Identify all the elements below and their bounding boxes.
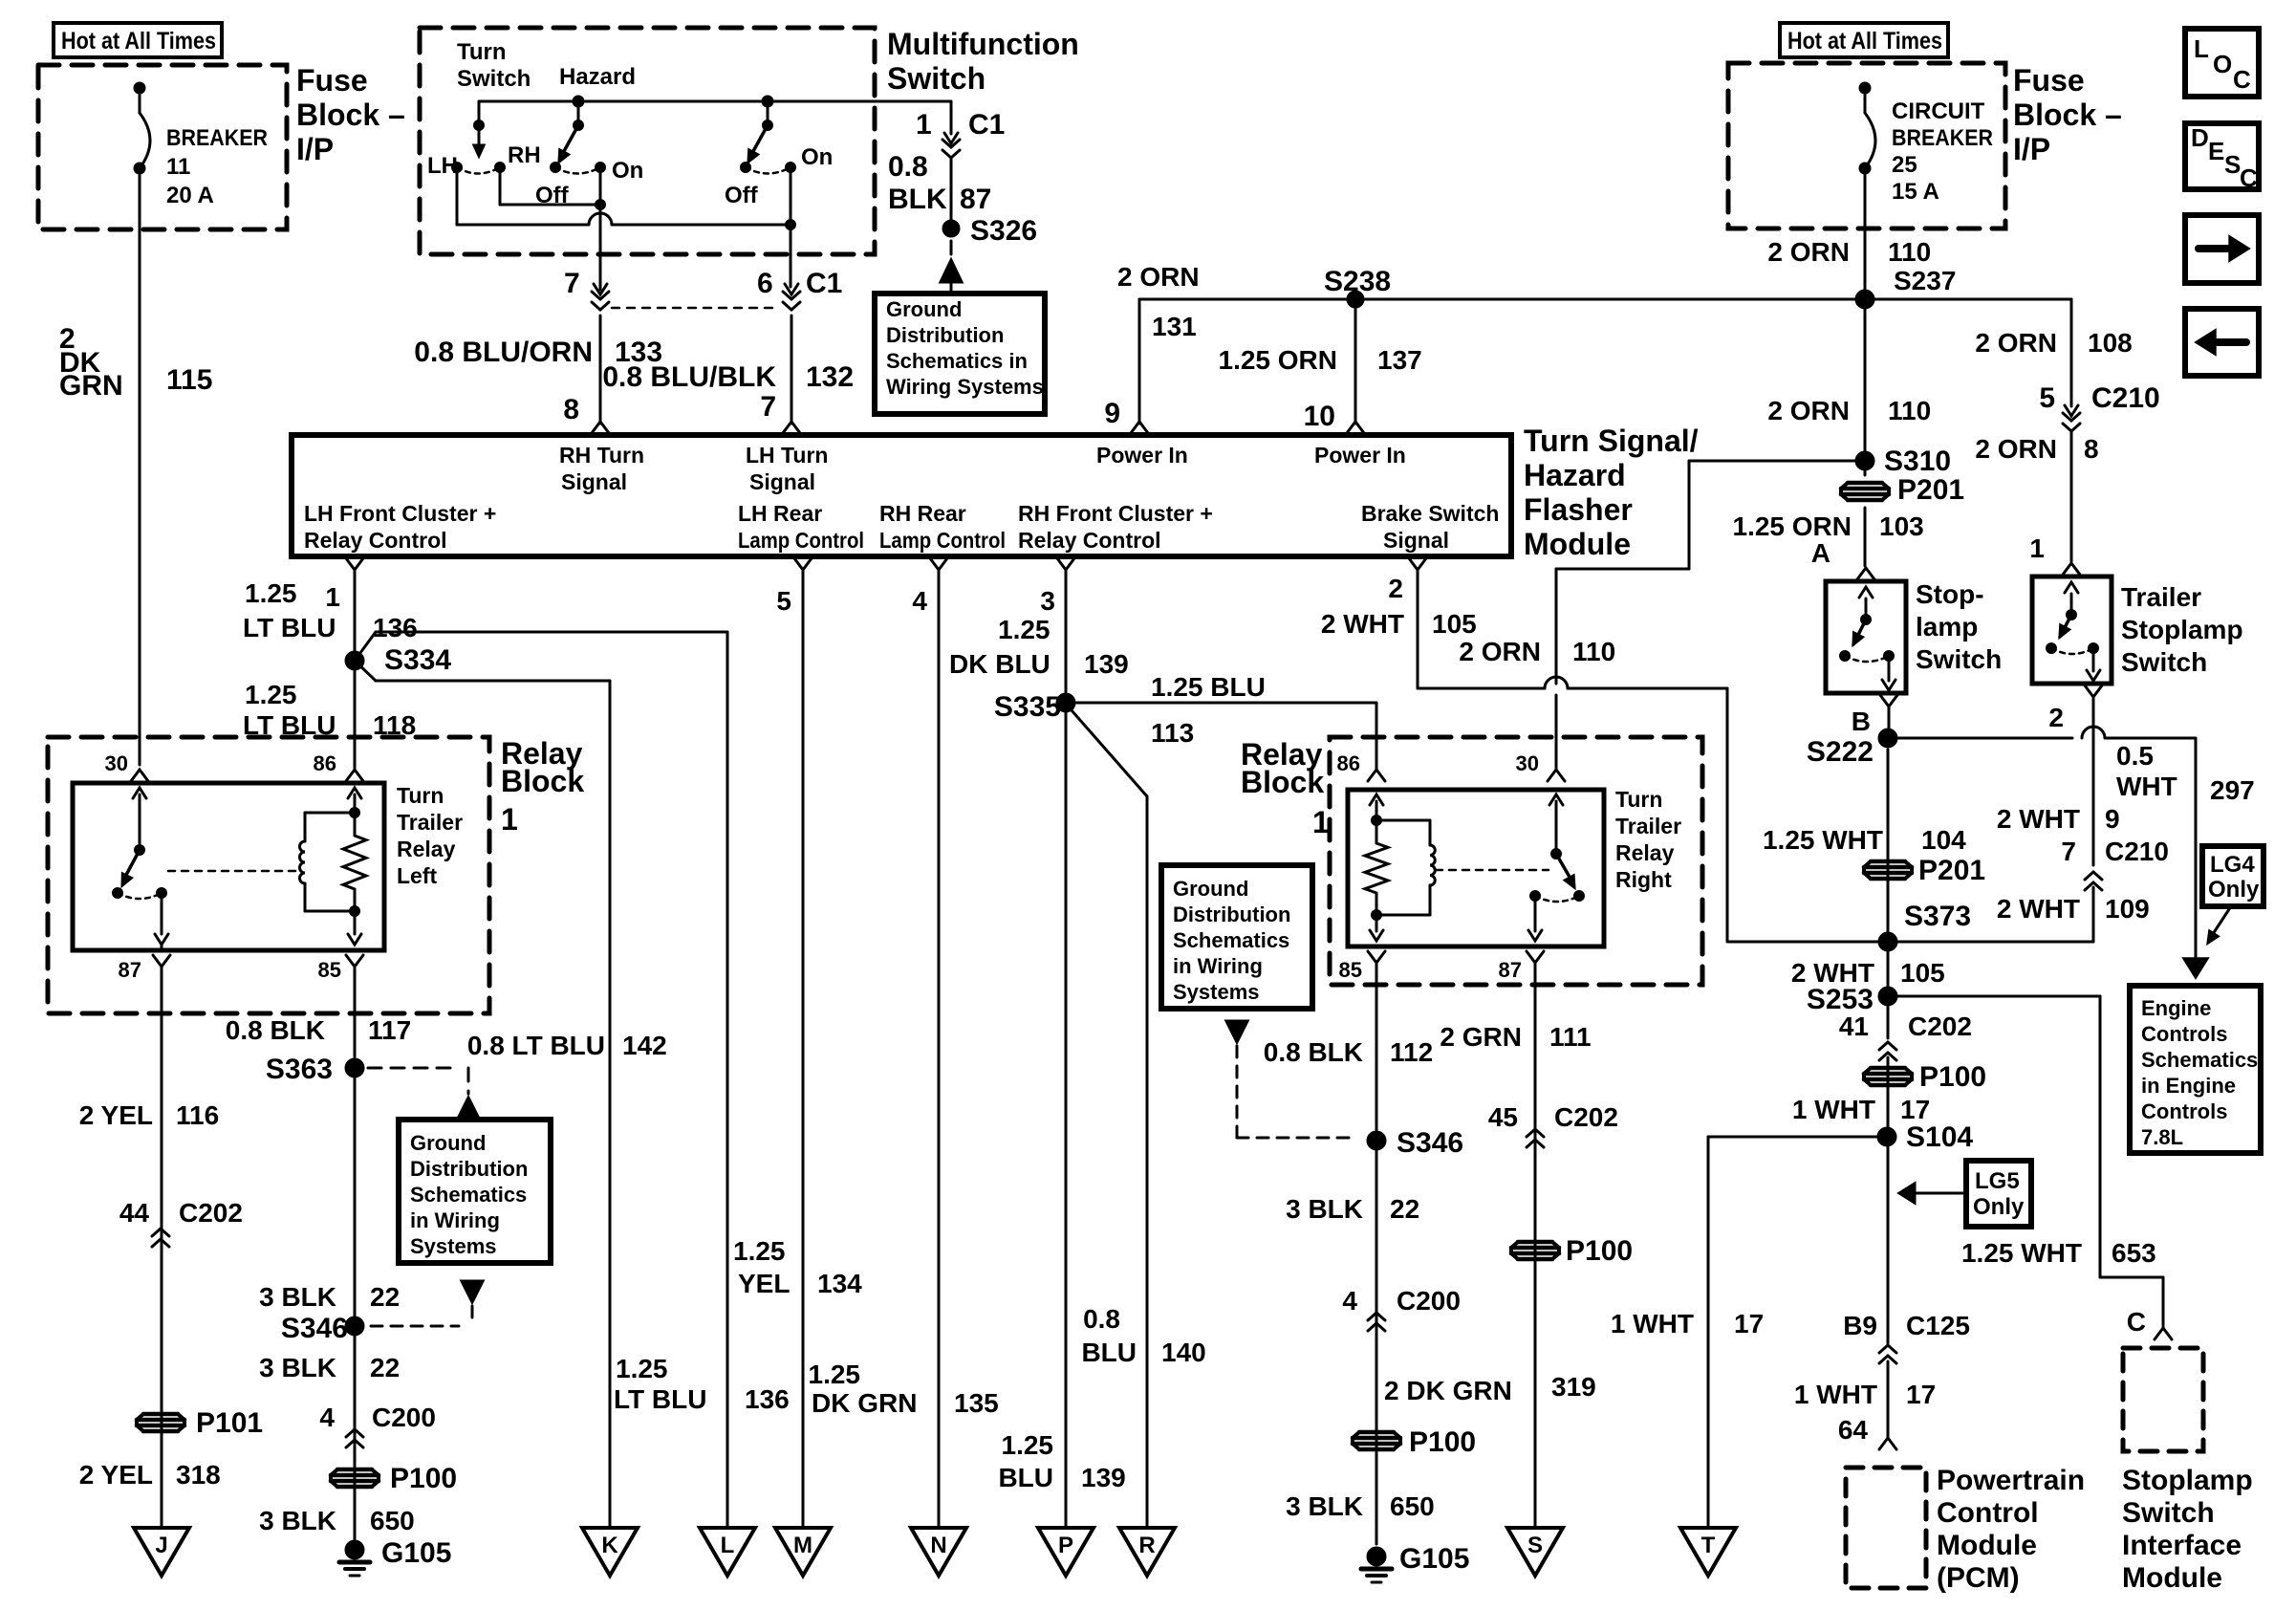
svg-text:2 YEL: 2 YEL <box>79 1100 153 1130</box>
svg-text:I/P: I/P <box>296 132 334 166</box>
svg-text:7.8L: 7.8L <box>2141 1125 2183 1149</box>
svg-text:RH Front Cluster +: RH Front Cluster + <box>1018 501 1213 526</box>
svg-text:Ground: Ground <box>886 297 962 321</box>
svg-text:Powertrain: Powertrain <box>1937 1465 2085 1496</box>
svg-text:139: 139 <box>1081 1463 1126 1492</box>
svg-text:4: 4 <box>912 586 927 616</box>
svg-text:Block –: Block – <box>296 98 405 132</box>
svg-text:C210: C210 <box>2105 837 2169 866</box>
svg-text:Signal: Signal <box>749 469 815 494</box>
svg-text:Lamp Control: Lamp Control <box>738 528 864 553</box>
svg-text:Right: Right <box>1615 867 1672 892</box>
svg-text:1.25: 1.25 <box>616 1354 668 1383</box>
svg-text:7: 7 <box>564 268 580 299</box>
svg-text:0.8 BLK: 0.8 BLK <box>226 1015 325 1045</box>
svg-text:650: 650 <box>370 1506 415 1535</box>
svg-text:135: 135 <box>954 1388 999 1418</box>
svg-text:0.8 BLU/BLK: 0.8 BLU/BLK <box>602 361 776 393</box>
svg-text:I/P: I/P <box>2013 132 2050 166</box>
svg-text:WHT: WHT <box>2116 772 2177 801</box>
svg-text:Ground: Ground <box>410 1131 486 1155</box>
svg-text:GRN: GRN <box>59 370 123 402</box>
svg-text:Fuse: Fuse <box>2013 63 2085 98</box>
svg-text:BLK: BLK <box>888 184 947 215</box>
svg-text:S346: S346 <box>1397 1127 1463 1159</box>
svg-text:87: 87 <box>960 184 991 215</box>
svg-text:Turn: Turn <box>1615 787 1662 812</box>
svg-text:1.25 ORN: 1.25 ORN <box>1219 345 1338 375</box>
svg-text:653: 653 <box>2112 1238 2156 1268</box>
svg-text:1 WHT: 1 WHT <box>1792 1095 1875 1124</box>
svg-text:87: 87 <box>1499 958 1522 982</box>
svg-text:P100: P100 <box>1919 1061 1986 1093</box>
svg-text:Interface: Interface <box>2122 1530 2242 1561</box>
svg-text:2 DK GRN: 2 DK GRN <box>1384 1376 1512 1405</box>
svg-text:C202: C202 <box>179 1198 243 1228</box>
svg-text:111: 111 <box>1549 1022 1592 1052</box>
svg-text:Flasher: Flasher <box>1524 492 1633 527</box>
svg-text:116: 116 <box>176 1100 219 1130</box>
svg-text:7: 7 <box>760 391 776 423</box>
svg-text:S222: S222 <box>1807 736 1874 768</box>
svg-text:30: 30 <box>105 751 128 775</box>
svg-text:136: 136 <box>373 613 418 642</box>
svg-text:105: 105 <box>1900 958 1945 988</box>
svg-text:110: 110 <box>1572 637 1615 666</box>
svg-text:Lamp Control: Lamp Control <box>879 528 1006 553</box>
svg-text:Turn: Turn <box>397 783 444 808</box>
svg-text:Schematics: Schematics <box>1173 928 1289 952</box>
svg-text:3 BLK: 3 BLK <box>259 1282 336 1312</box>
svg-text:2 WHT: 2 WHT <box>1997 894 2080 924</box>
svg-text:Schematics: Schematics <box>410 1183 527 1207</box>
svg-text:137: 137 <box>1377 345 1422 375</box>
svg-text:0.8: 0.8 <box>1083 1304 1120 1334</box>
svg-text:Hot at All Times: Hot at All Times <box>61 28 216 54</box>
svg-text:Controls: Controls <box>2141 1099 2227 1123</box>
svg-text:Off: Off <box>725 183 759 208</box>
svg-text:2 ORN: 2 ORN <box>1975 328 2057 358</box>
svg-text:Hazard: Hazard <box>1524 458 1626 492</box>
svg-text:D: D <box>2191 123 2209 152</box>
svg-text:Relay Control: Relay Control <box>1018 528 1161 553</box>
svg-text:1.25: 1.25 <box>1002 1430 1054 1460</box>
svg-text:C1: C1 <box>968 109 1005 141</box>
svg-text:Ground: Ground <box>1173 877 1248 901</box>
svg-text:1.25: 1.25 <box>245 680 297 709</box>
svg-text:BLU: BLU <box>1081 1338 1137 1367</box>
svg-text:Power In: Power In <box>1096 443 1188 468</box>
svg-text:LT BLU: LT BLU <box>614 1384 706 1414</box>
svg-text:CIRCUIT: CIRCUIT <box>1892 98 1985 124</box>
svg-text:Signal: Signal <box>561 469 627 494</box>
svg-text:C200: C200 <box>372 1403 436 1432</box>
svg-text:in Engine: in Engine <box>2141 1074 2236 1098</box>
svg-text:650: 650 <box>1390 1491 1435 1521</box>
svg-text:Switch: Switch <box>2122 1497 2215 1529</box>
svg-text:Distribution: Distribution <box>886 323 1004 347</box>
svg-text:103: 103 <box>1879 511 1924 541</box>
svg-text:Schematics: Schematics <box>2141 1048 2258 1072</box>
svg-text:Block: Block <box>1241 765 1324 799</box>
svg-text:22: 22 <box>1390 1194 1419 1224</box>
svg-text:S310: S310 <box>1884 446 1951 477</box>
svg-text:131: 131 <box>1152 312 1197 341</box>
svg-text:6: 6 <box>757 268 773 299</box>
svg-text:132: 132 <box>806 361 854 393</box>
svg-text:110: 110 <box>1888 237 1931 267</box>
svg-text:LG4: LG4 <box>2210 852 2255 878</box>
svg-text:1.25 BLU: 1.25 BLU <box>1151 672 1266 702</box>
svg-text:2 ORN: 2 ORN <box>1767 396 1850 425</box>
svg-text:L: L <box>721 1533 735 1558</box>
svg-text:85: 85 <box>318 958 341 982</box>
svg-text:On: On <box>612 158 643 184</box>
svg-text:7: 7 <box>2061 837 2076 866</box>
svg-text:P101: P101 <box>196 1407 263 1439</box>
svg-text:Engine: Engine <box>2141 996 2211 1020</box>
svg-text:1.25: 1.25 <box>809 1360 861 1389</box>
svg-text:86: 86 <box>1337 751 1360 775</box>
svg-text:DK GRN: DK GRN <box>812 1388 917 1418</box>
svg-text:85: 85 <box>1339 958 1362 982</box>
svg-text:0.5: 0.5 <box>2116 741 2154 771</box>
svg-text:Schematics in: Schematics in <box>886 349 1028 373</box>
svg-text:17: 17 <box>1734 1309 1764 1338</box>
svg-text:R: R <box>1138 1533 1155 1558</box>
svg-text:3 BLK: 3 BLK <box>1286 1194 1363 1224</box>
svg-text:1.25: 1.25 <box>733 1236 786 1266</box>
svg-text:105: 105 <box>1432 609 1477 639</box>
svg-text:5: 5 <box>2039 382 2055 414</box>
svg-text:Only: Only <box>2208 877 2260 903</box>
svg-text:C200: C200 <box>1397 1286 1461 1316</box>
svg-text:RH Rear: RH Rear <box>879 501 966 526</box>
svg-text:RH: RH <box>508 142 541 168</box>
svg-text:Systems: Systems <box>1173 980 1260 1004</box>
svg-text:E: E <box>2208 137 2224 165</box>
svg-text:On: On <box>801 144 833 170</box>
svg-text:Stoplamp: Stoplamp <box>2122 1465 2253 1496</box>
svg-text:C210: C210 <box>2091 382 2160 414</box>
svg-text:136: 136 <box>745 1384 790 1414</box>
svg-text:A: A <box>1811 538 1830 568</box>
svg-text:140: 140 <box>1161 1338 1206 1367</box>
svg-text:17: 17 <box>1906 1380 1936 1409</box>
svg-text:1: 1 <box>1312 805 1330 839</box>
svg-text:Stop-: Stop- <box>1916 579 1984 609</box>
svg-text:S326: S326 <box>970 215 1037 247</box>
svg-text:M: M <box>793 1533 812 1558</box>
svg-text:BREAKER: BREAKER <box>1892 125 1993 151</box>
svg-text:Brake Switch: Brake Switch <box>1361 501 1499 526</box>
svg-text:LH Front Cluster +: LH Front Cluster + <box>304 501 496 526</box>
svg-text:87: 87 <box>119 958 141 982</box>
svg-text:318: 318 <box>176 1460 221 1490</box>
svg-text:P100: P100 <box>1409 1426 1476 1458</box>
svg-text:S363: S363 <box>266 1054 333 1085</box>
svg-text:Relay: Relay <box>1615 840 1675 865</box>
svg-text:Fuse: Fuse <box>296 63 368 98</box>
svg-text:RH Turn: RH Turn <box>559 443 644 468</box>
svg-text:10: 10 <box>1304 401 1335 432</box>
svg-text:0.8 BLK: 0.8 BLK <box>1264 1037 1363 1067</box>
svg-text:86: 86 <box>314 751 336 775</box>
svg-text:30: 30 <box>1516 751 1539 775</box>
svg-text:C202: C202 <box>1908 1012 1972 1041</box>
svg-text:B9: B9 <box>1843 1311 1877 1340</box>
svg-text:319: 319 <box>1551 1372 1596 1402</box>
svg-text:C: C <box>2240 163 2258 192</box>
svg-text:O: O <box>2213 50 2232 78</box>
svg-text:P100: P100 <box>1566 1235 1633 1267</box>
svg-text:112: 112 <box>1390 1037 1433 1067</box>
svg-text:Trailer: Trailer <box>397 810 463 835</box>
svg-text:Off: Off <box>535 183 570 208</box>
svg-text:4: 4 <box>319 1403 335 1432</box>
svg-text:G105: G105 <box>1399 1543 1469 1575</box>
svg-text:Switch: Switch <box>887 61 986 96</box>
svg-text:in Wiring: in Wiring <box>410 1208 500 1232</box>
svg-text:142: 142 <box>622 1031 667 1060</box>
svg-text:Switch: Switch <box>1916 644 2002 674</box>
svg-text:2: 2 <box>1388 574 1403 603</box>
svg-text:Systems: Systems <box>410 1234 497 1258</box>
svg-text:Hot at All Times: Hot at All Times <box>1787 28 1942 54</box>
svg-text:3: 3 <box>1040 586 1055 616</box>
svg-text:297: 297 <box>2210 775 2255 805</box>
svg-text:T: T <box>1701 1533 1716 1558</box>
svg-text:0.8: 0.8 <box>888 151 928 183</box>
svg-text:C: C <box>2127 1307 2146 1337</box>
svg-text:S335: S335 <box>994 691 1061 723</box>
svg-text:2 ORN: 2 ORN <box>1767 237 1850 267</box>
svg-text:1.25: 1.25 <box>245 578 297 608</box>
svg-text:45: 45 <box>1488 1102 1518 1132</box>
svg-text:1 WHT: 1 WHT <box>1794 1380 1877 1409</box>
svg-text:8: 8 <box>563 394 579 425</box>
svg-text:L: L <box>2194 34 2209 63</box>
svg-text:0.8 BLU/ORN: 0.8 BLU/ORN <box>414 337 593 368</box>
svg-text:139: 139 <box>1084 649 1129 679</box>
svg-text:4: 4 <box>1342 1286 1357 1316</box>
svg-text:3 BLK: 3 BLK <box>1286 1491 1363 1521</box>
svg-text:Relay: Relay <box>397 837 456 861</box>
svg-text:S: S <box>1527 1533 1543 1558</box>
svg-text:1: 1 <box>2029 533 2045 563</box>
svg-text:K: K <box>601 1533 618 1558</box>
svg-text:1 WHT: 1 WHT <box>1611 1309 1694 1338</box>
svg-text:1.25 WHT: 1.25 WHT <box>1763 825 1883 855</box>
svg-text:110: 110 <box>1888 396 1931 425</box>
svg-text:104: 104 <box>1921 825 1966 855</box>
svg-text:Control: Control <box>1937 1497 2039 1529</box>
svg-text:8: 8 <box>2084 434 2099 464</box>
svg-text:G105: G105 <box>381 1537 451 1569</box>
svg-text:2 ORN: 2 ORN <box>1975 434 2057 464</box>
svg-text:(PCM): (PCM) <box>1937 1562 2020 1594</box>
svg-text:5: 5 <box>776 586 791 616</box>
svg-text:1.25 WHT: 1.25 WHT <box>1961 1238 2082 1268</box>
svg-text:C202: C202 <box>1554 1102 1618 1132</box>
svg-text:Relay Control: Relay Control <box>304 528 447 553</box>
svg-text:64: 64 <box>1838 1415 1869 1445</box>
svg-text:LH Turn: LH Turn <box>746 443 828 468</box>
svg-text:Power In: Power In <box>1314 443 1406 468</box>
svg-text:LG5: LG5 <box>1975 1168 2020 1194</box>
svg-text:Signal: Signal <box>1383 528 1449 553</box>
svg-text:Hazard: Hazard <box>559 64 636 90</box>
svg-text:BREAKER: BREAKER <box>166 125 268 151</box>
svg-text:44: 44 <box>119 1198 150 1228</box>
svg-text:S238: S238 <box>1324 266 1391 297</box>
svg-text:15 A: 15 A <box>1892 179 1939 205</box>
svg-text:C1: C1 <box>806 268 842 299</box>
svg-text:113: 113 <box>1151 718 1194 748</box>
svg-text:11: 11 <box>166 154 190 180</box>
svg-text:S237: S237 <box>1894 266 1956 295</box>
svg-text:1: 1 <box>916 109 932 141</box>
svg-text:3 BLK: 3 BLK <box>259 1353 336 1382</box>
svg-text:YEL: YEL <box>738 1269 790 1298</box>
svg-text:109: 109 <box>2105 894 2150 924</box>
svg-text:Controls: Controls <box>2141 1022 2227 1046</box>
svg-text:P: P <box>1058 1533 1073 1558</box>
svg-text:1: 1 <box>325 582 340 612</box>
svg-text:108: 108 <box>2088 328 2133 358</box>
svg-text:2 WHT: 2 WHT <box>1997 804 2080 834</box>
svg-text:17: 17 <box>1900 1095 1930 1124</box>
svg-text:117: 117 <box>368 1015 411 1045</box>
svg-text:Switch: Switch <box>457 66 531 92</box>
svg-text:LT BLU: LT BLU <box>243 613 336 642</box>
svg-text:Trailer: Trailer <box>2121 582 2201 612</box>
svg-text:S: S <box>2224 150 2241 179</box>
svg-text:Stoplamp: Stoplamp <box>2121 615 2243 644</box>
svg-text:C: C <box>2233 65 2251 94</box>
svg-text:S373: S373 <box>1904 901 1971 932</box>
svg-text:Wiring Systems: Wiring Systems <box>886 375 1044 399</box>
svg-text:P201: P201 <box>1918 855 1985 886</box>
svg-text:Block –: Block – <box>2013 98 2122 132</box>
svg-text:S334: S334 <box>384 644 451 676</box>
svg-text:Only: Only <box>1973 1194 2025 1220</box>
svg-text:3 BLK: 3 BLK <box>259 1506 336 1535</box>
svg-text:Multifunction: Multifunction <box>887 27 1079 61</box>
svg-text:P100: P100 <box>390 1463 457 1494</box>
svg-text:2: 2 <box>2048 703 2064 732</box>
svg-text:2 ORN: 2 ORN <box>1459 637 1541 666</box>
svg-text:9: 9 <box>2105 804 2120 834</box>
svg-text:B: B <box>1852 707 1871 736</box>
svg-text:Distribution: Distribution <box>410 1157 528 1181</box>
svg-text:1: 1 <box>501 802 518 837</box>
svg-text:P201: P201 <box>1897 474 1964 506</box>
svg-text:Trailer: Trailer <box>1615 814 1681 838</box>
svg-text:J: J <box>155 1533 167 1558</box>
svg-text:lamp: lamp <box>1916 612 1978 642</box>
svg-text:Switch: Switch <box>2121 647 2207 677</box>
svg-text:Module: Module <box>2122 1562 2222 1594</box>
svg-text:0.8 LT BLU: 0.8 LT BLU <box>467 1031 605 1060</box>
svg-text:22: 22 <box>370 1353 400 1382</box>
svg-text:2 ORN: 2 ORN <box>1117 262 1200 292</box>
svg-text:LH Rear: LH Rear <box>738 501 822 526</box>
svg-text:Module: Module <box>1524 527 1631 561</box>
svg-text:Block: Block <box>501 764 584 798</box>
svg-text:Left: Left <box>397 863 438 888</box>
svg-text:2 WHT: 2 WHT <box>1321 609 1404 639</box>
svg-text:S104: S104 <box>1906 1121 1973 1153</box>
svg-text:DK BLU: DK BLU <box>949 649 1051 679</box>
svg-text:1.25 ORN: 1.25 ORN <box>1733 511 1852 541</box>
svg-text:9: 9 <box>1104 398 1120 429</box>
svg-text:1.25: 1.25 <box>998 615 1051 644</box>
svg-text:S346: S346 <box>281 1313 348 1344</box>
svg-text:N: N <box>930 1533 946 1558</box>
svg-text:Turn: Turn <box>457 39 507 65</box>
svg-text:C125: C125 <box>1906 1311 1970 1340</box>
svg-text:41: 41 <box>1839 1012 1869 1041</box>
svg-text:BLU: BLU <box>998 1463 1053 1492</box>
svg-text:25: 25 <box>1892 152 1917 178</box>
svg-text:20 A: 20 A <box>166 183 214 208</box>
svg-text:134: 134 <box>817 1269 862 1298</box>
svg-text:Turn Signal/: Turn Signal/ <box>1524 424 1699 458</box>
svg-text:in Wiring: in Wiring <box>1173 954 1263 978</box>
svg-text:115: 115 <box>166 364 212 396</box>
svg-text:Module: Module <box>1937 1530 2037 1561</box>
svg-text:2 GRN: 2 GRN <box>1440 1022 1522 1052</box>
svg-text:2 YEL: 2 YEL <box>79 1460 153 1490</box>
svg-text:22: 22 <box>370 1282 400 1312</box>
svg-text:Distribution: Distribution <box>1173 903 1290 926</box>
